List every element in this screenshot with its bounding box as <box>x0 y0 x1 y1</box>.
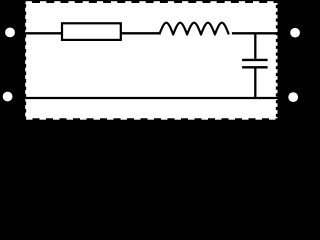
inductor L1 <box>159 23 228 35</box>
resistor R1 <box>62 23 121 40</box>
selection border top <box>25 1 277 3</box>
port P3 (bottom-left) <box>3 92 13 102</box>
wire: bottom return rail <box>25 97 277 99</box>
selection border left <box>24 1 26 120</box>
port P4 (bottom-right) <box>288 92 298 102</box>
selection border bottom <box>25 118 277 120</box>
capacitor C1 top lead <box>254 33 256 59</box>
wire: inductor to output <box>232 32 278 34</box>
capacitor C1 bottom plate <box>242 66 268 68</box>
schematic sheet <box>25 1 277 120</box>
selection border right <box>276 1 278 120</box>
wire: resistor to inductor <box>121 32 160 34</box>
capacitor C1 top plate <box>242 59 268 61</box>
port P2 (top-right) <box>290 28 300 38</box>
capacitor C1 bottom lead <box>254 68 256 98</box>
port P1 (top-left) <box>5 28 15 38</box>
wire: input to resistor <box>25 32 62 34</box>
